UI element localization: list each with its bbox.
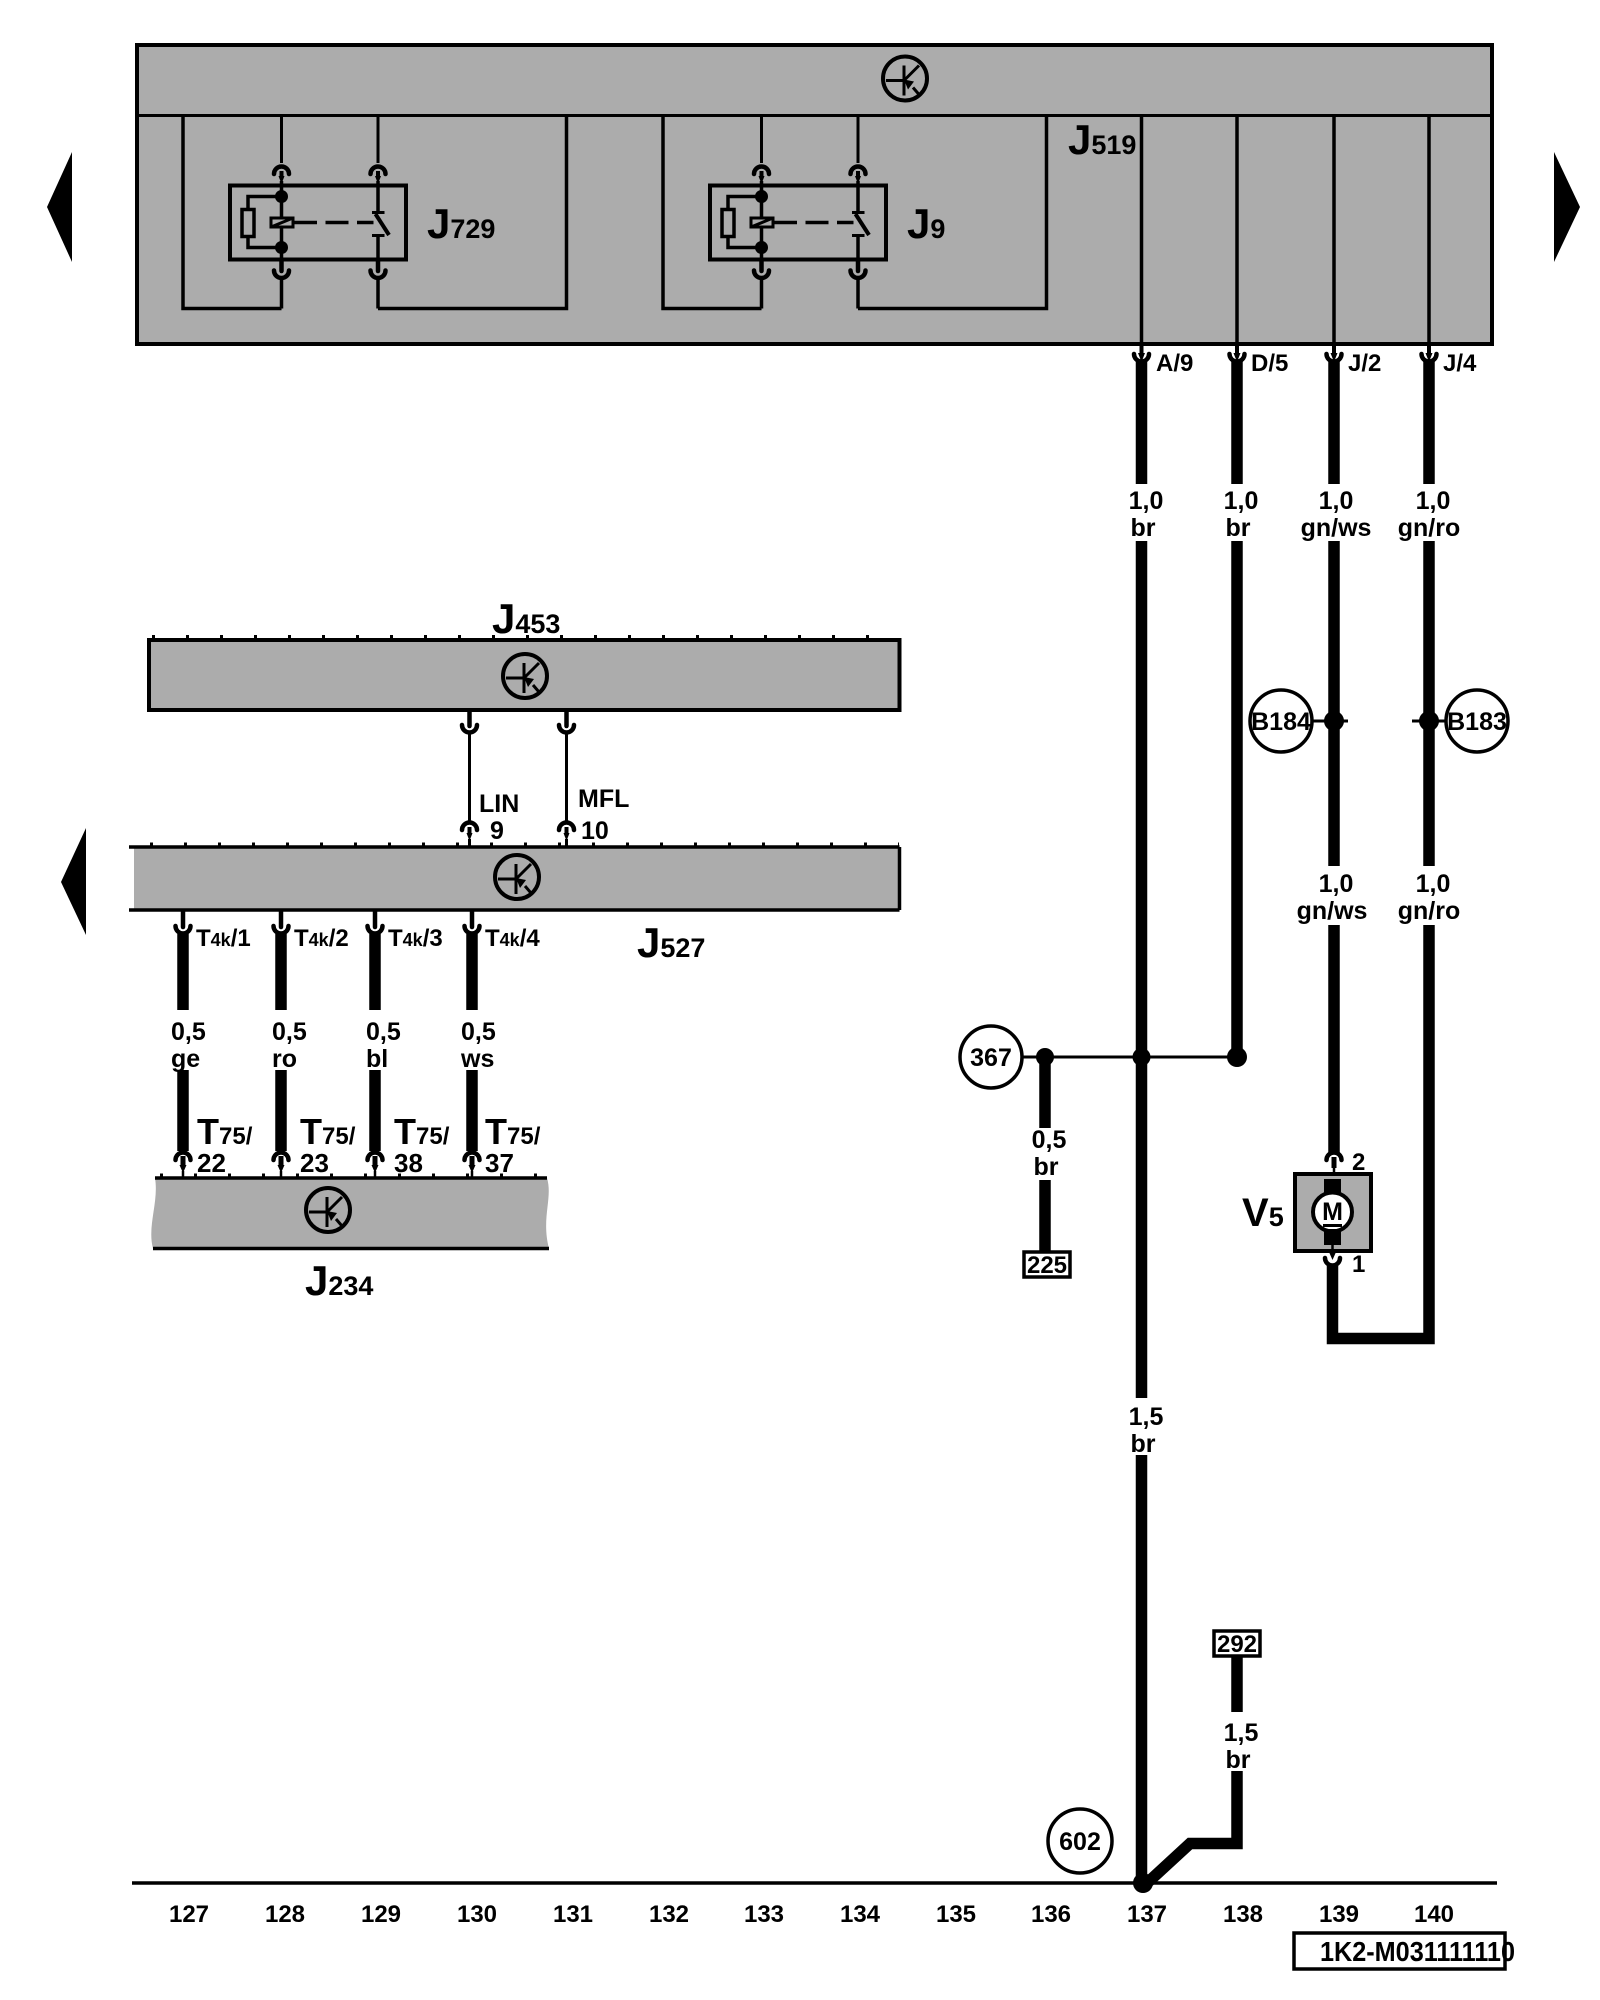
svg-text:B184: B184 bbox=[1251, 708, 1311, 736]
svg-text:0,5: 0,5 bbox=[272, 1018, 307, 1046]
svg-text:T4k/3: T4k/3 bbox=[388, 925, 443, 952]
svg-text:1,0: 1,0 bbox=[1224, 487, 1259, 515]
svg-text:1,0: 1,0 bbox=[1416, 487, 1451, 515]
svg-text:T75/: T75/ bbox=[300, 1111, 356, 1152]
terminal A/9 bbox=[1134, 345, 1149, 362]
terminal J/4 bbox=[1422, 345, 1437, 362]
svg-text:br: br bbox=[1226, 1746, 1251, 1774]
svg-text:gn/ws: gn/ws bbox=[1297, 897, 1368, 925]
internal wire to pin J/4 bbox=[1427, 115, 1431, 345]
svg-text:0,5: 0,5 bbox=[171, 1018, 206, 1046]
svg-text:292: 292 bbox=[1217, 1631, 1257, 1658]
svg-text:bl: bl bbox=[366, 1045, 388, 1073]
svg-text:T75/: T75/ bbox=[394, 1111, 450, 1152]
svg-text:137: 137 bbox=[1127, 1901, 1167, 1928]
motor V5 (windscreen washer pump) bbox=[1295, 1153, 1371, 1266]
wire 1,5 br from 292 (upper) bbox=[1231, 1656, 1243, 1712]
svg-text:128: 128 bbox=[265, 1901, 305, 1928]
wire J/2 (segment to V5 pin 2) bbox=[1328, 925, 1340, 1153]
svg-text:129: 129 bbox=[361, 1901, 401, 1928]
junction dot B184 on wire J/2 bbox=[1324, 711, 1344, 731]
svg-text:22: 22 bbox=[197, 1148, 226, 1178]
K symbol (J527) bbox=[495, 855, 539, 899]
svg-text:10: 10 bbox=[581, 817, 609, 845]
wire A/9 brown 1,0 (upper segment) bbox=[1136, 361, 1148, 484]
svg-text:131: 131 bbox=[553, 1901, 593, 1928]
svg-text:A/9: A/9 bbox=[1156, 350, 1193, 377]
svg-text:ws: ws bbox=[460, 1045, 494, 1073]
svg-text:J/4: J/4 bbox=[1443, 350, 1477, 377]
J453 control unit band (multifunction steering wheel) bbox=[149, 637, 900, 710]
svg-text:136: 136 bbox=[1031, 1901, 1071, 1928]
svg-text:139: 139 bbox=[1319, 1901, 1359, 1928]
pin T4k/2 wire (red 0,5) bbox=[274, 911, 289, 1178]
svg-text:9: 9 bbox=[490, 817, 504, 845]
junction dot (0,5 br branch) bbox=[1036, 1048, 1054, 1066]
svg-text:134: 134 bbox=[840, 1901, 881, 1928]
svg-text:T4k/1: T4k/1 bbox=[196, 925, 251, 952]
pin T4k/3 wire (blue 0,5) bbox=[368, 911, 383, 1178]
svg-text:J234: J234 bbox=[305, 1257, 373, 1304]
svg-text:37: 37 bbox=[485, 1148, 514, 1178]
svg-text:T4k/4: T4k/4 bbox=[485, 925, 540, 952]
svg-text:1K2-M031111110: 1K2-M031111110 bbox=[1320, 1936, 1515, 1967]
svg-text:138: 138 bbox=[1223, 1901, 1263, 1928]
wire A/9 brown (main segment to ground line) bbox=[1136, 541, 1148, 1398]
svg-text:130: 130 bbox=[457, 1901, 497, 1928]
svg-text:135: 135 bbox=[936, 1901, 976, 1928]
svg-text:B183: B183 bbox=[1447, 708, 1507, 736]
MFL wire J453 to J527 bbox=[559, 712, 574, 846]
J527 control unit band (steering column electronics) bbox=[129, 845, 900, 911]
page arrow left (middle) bbox=[61, 828, 86, 935]
svg-text:D/5: D/5 bbox=[1251, 350, 1288, 377]
relay J729 (terminal 15 voltage supply relay) bbox=[183, 115, 567, 309]
svg-text:0,5: 0,5 bbox=[366, 1018, 401, 1046]
wire J/2 green/white 1,0 (upper segment) bbox=[1328, 361, 1340, 484]
current track base line bbox=[132, 1881, 1497, 1885]
junction dot B183 on wire J/4 bbox=[1419, 711, 1439, 731]
svg-text:gn/ws: gn/ws bbox=[1301, 514, 1372, 542]
wire A/9 lower segment 1,5 br bbox=[1136, 1455, 1148, 1883]
wire J/4 (segment down and across to V5 pin 1) bbox=[1333, 925, 1430, 1339]
svg-text:T4k/2: T4k/2 bbox=[294, 925, 349, 952]
svg-text:ro: ro bbox=[272, 1045, 297, 1073]
J234 control unit band (airbag, torn edges) bbox=[151, 1176, 549, 1249]
wire J/4 green/red 1,0 (upper segment) bbox=[1423, 361, 1435, 484]
svg-text:br: br bbox=[1034, 1153, 1059, 1181]
svg-text:M: M bbox=[1322, 1198, 1343, 1226]
svg-text:gn/ro: gn/ro bbox=[1398, 514, 1461, 542]
K symbol (J453) bbox=[503, 654, 547, 698]
page arrow right bbox=[1554, 152, 1580, 262]
svg-text:br: br bbox=[1131, 514, 1156, 542]
svg-text:1: 1 bbox=[1352, 1251, 1365, 1278]
svg-text:MFL: MFL bbox=[578, 785, 629, 813]
node 367 circle bbox=[960, 1026, 1022, 1088]
wire 0,5 br to ground 225 (upper) bbox=[1039, 1057, 1051, 1128]
svg-text:1,0: 1,0 bbox=[1319, 870, 1354, 898]
wire 1,5 br from 292 (lower, to junction 137) bbox=[1146, 1771, 1237, 1884]
terminal D/5 bbox=[1230, 345, 1245, 362]
svg-text:225: 225 bbox=[1027, 1252, 1067, 1279]
svg-text:J453: J453 bbox=[492, 595, 560, 642]
K symbol (J519) bbox=[883, 57, 927, 101]
page arrow left (top) bbox=[47, 152, 72, 262]
internal wire to pin J/2 bbox=[1332, 115, 1336, 345]
svg-text:0,5: 0,5 bbox=[1032, 1126, 1067, 1154]
svg-text:602: 602 bbox=[1059, 1828, 1101, 1856]
wire D/5 brown 1,0 (upper segment) bbox=[1231, 361, 1243, 484]
svg-text:gn/ro: gn/ro bbox=[1398, 897, 1461, 925]
connector circle B184 bbox=[1250, 690, 1348, 752]
wire J/4 (segment through B183 junction) bbox=[1423, 541, 1435, 866]
wire D/5 brown (segment to junction 367) bbox=[1231, 541, 1243, 1052]
svg-text:133: 133 bbox=[744, 1901, 784, 1928]
svg-text:J527: J527 bbox=[637, 919, 705, 966]
svg-text:127: 127 bbox=[169, 1901, 209, 1928]
svg-text:367: 367 bbox=[970, 1044, 1012, 1072]
LIN wire J453 to J527 bbox=[462, 712, 477, 846]
svg-text:0,5: 0,5 bbox=[461, 1018, 496, 1046]
svg-text:br: br bbox=[1131, 1430, 1156, 1458]
junction dot end of wire D/5 bbox=[1227, 1047, 1247, 1067]
svg-text:1,5: 1,5 bbox=[1129, 1403, 1164, 1431]
ground point 292 bbox=[1214, 1631, 1260, 1658]
internal wire to pin D/5 bbox=[1235, 115, 1239, 345]
svg-text:1,5: 1,5 bbox=[1224, 1719, 1259, 1747]
svg-text:LIN: LIN bbox=[479, 790, 519, 818]
svg-text:V5: V5 bbox=[1242, 1191, 1284, 1235]
ground point 225 bbox=[1024, 1252, 1070, 1279]
relay J9 (heated rear window relay) bbox=[663, 115, 1047, 309]
connector circle B183 bbox=[1412, 690, 1508, 752]
wire 0,5 br to ground 225 (lower) bbox=[1039, 1180, 1051, 1252]
wire J/2 (segment through B184 junction) bbox=[1328, 541, 1340, 866]
junction dot on wire A/9 bbox=[1133, 1048, 1151, 1066]
svg-text:T75/: T75/ bbox=[197, 1111, 253, 1152]
node 602 circle bbox=[1048, 1809, 1112, 1873]
svg-text:br: br bbox=[1226, 514, 1251, 542]
svg-text:140: 140 bbox=[1414, 1901, 1454, 1928]
svg-text:J/2: J/2 bbox=[1348, 350, 1381, 377]
svg-text:ge: ge bbox=[171, 1045, 200, 1073]
svg-text:1,0: 1,0 bbox=[1319, 487, 1354, 515]
svg-text:2: 2 bbox=[1352, 1149, 1365, 1176]
internal wire to pin A/9 bbox=[1140, 115, 1144, 345]
pin T4k/4 wire (white 0,5) bbox=[465, 911, 480, 1178]
terminal J/2 bbox=[1327, 345, 1342, 362]
junction dot on base line (track 137) bbox=[1133, 1873, 1153, 1893]
svg-text:1,0: 1,0 bbox=[1129, 487, 1164, 515]
junction link line 367 bbox=[1022, 1056, 1237, 1059]
svg-text:132: 132 bbox=[649, 1901, 689, 1928]
K symbol (J234) bbox=[306, 1188, 350, 1232]
svg-text:1,0: 1,0 bbox=[1416, 870, 1451, 898]
pin T4k/1 wire (yellow 0,5) bbox=[176, 911, 191, 1178]
svg-text:T75/: T75/ bbox=[485, 1111, 541, 1152]
svg-text:23: 23 bbox=[300, 1148, 329, 1178]
J519 onboard supply control unit box (top band) bbox=[135, 45, 1492, 344]
diagram code box 1K2-M031111110 bbox=[1294, 1933, 1515, 1969]
